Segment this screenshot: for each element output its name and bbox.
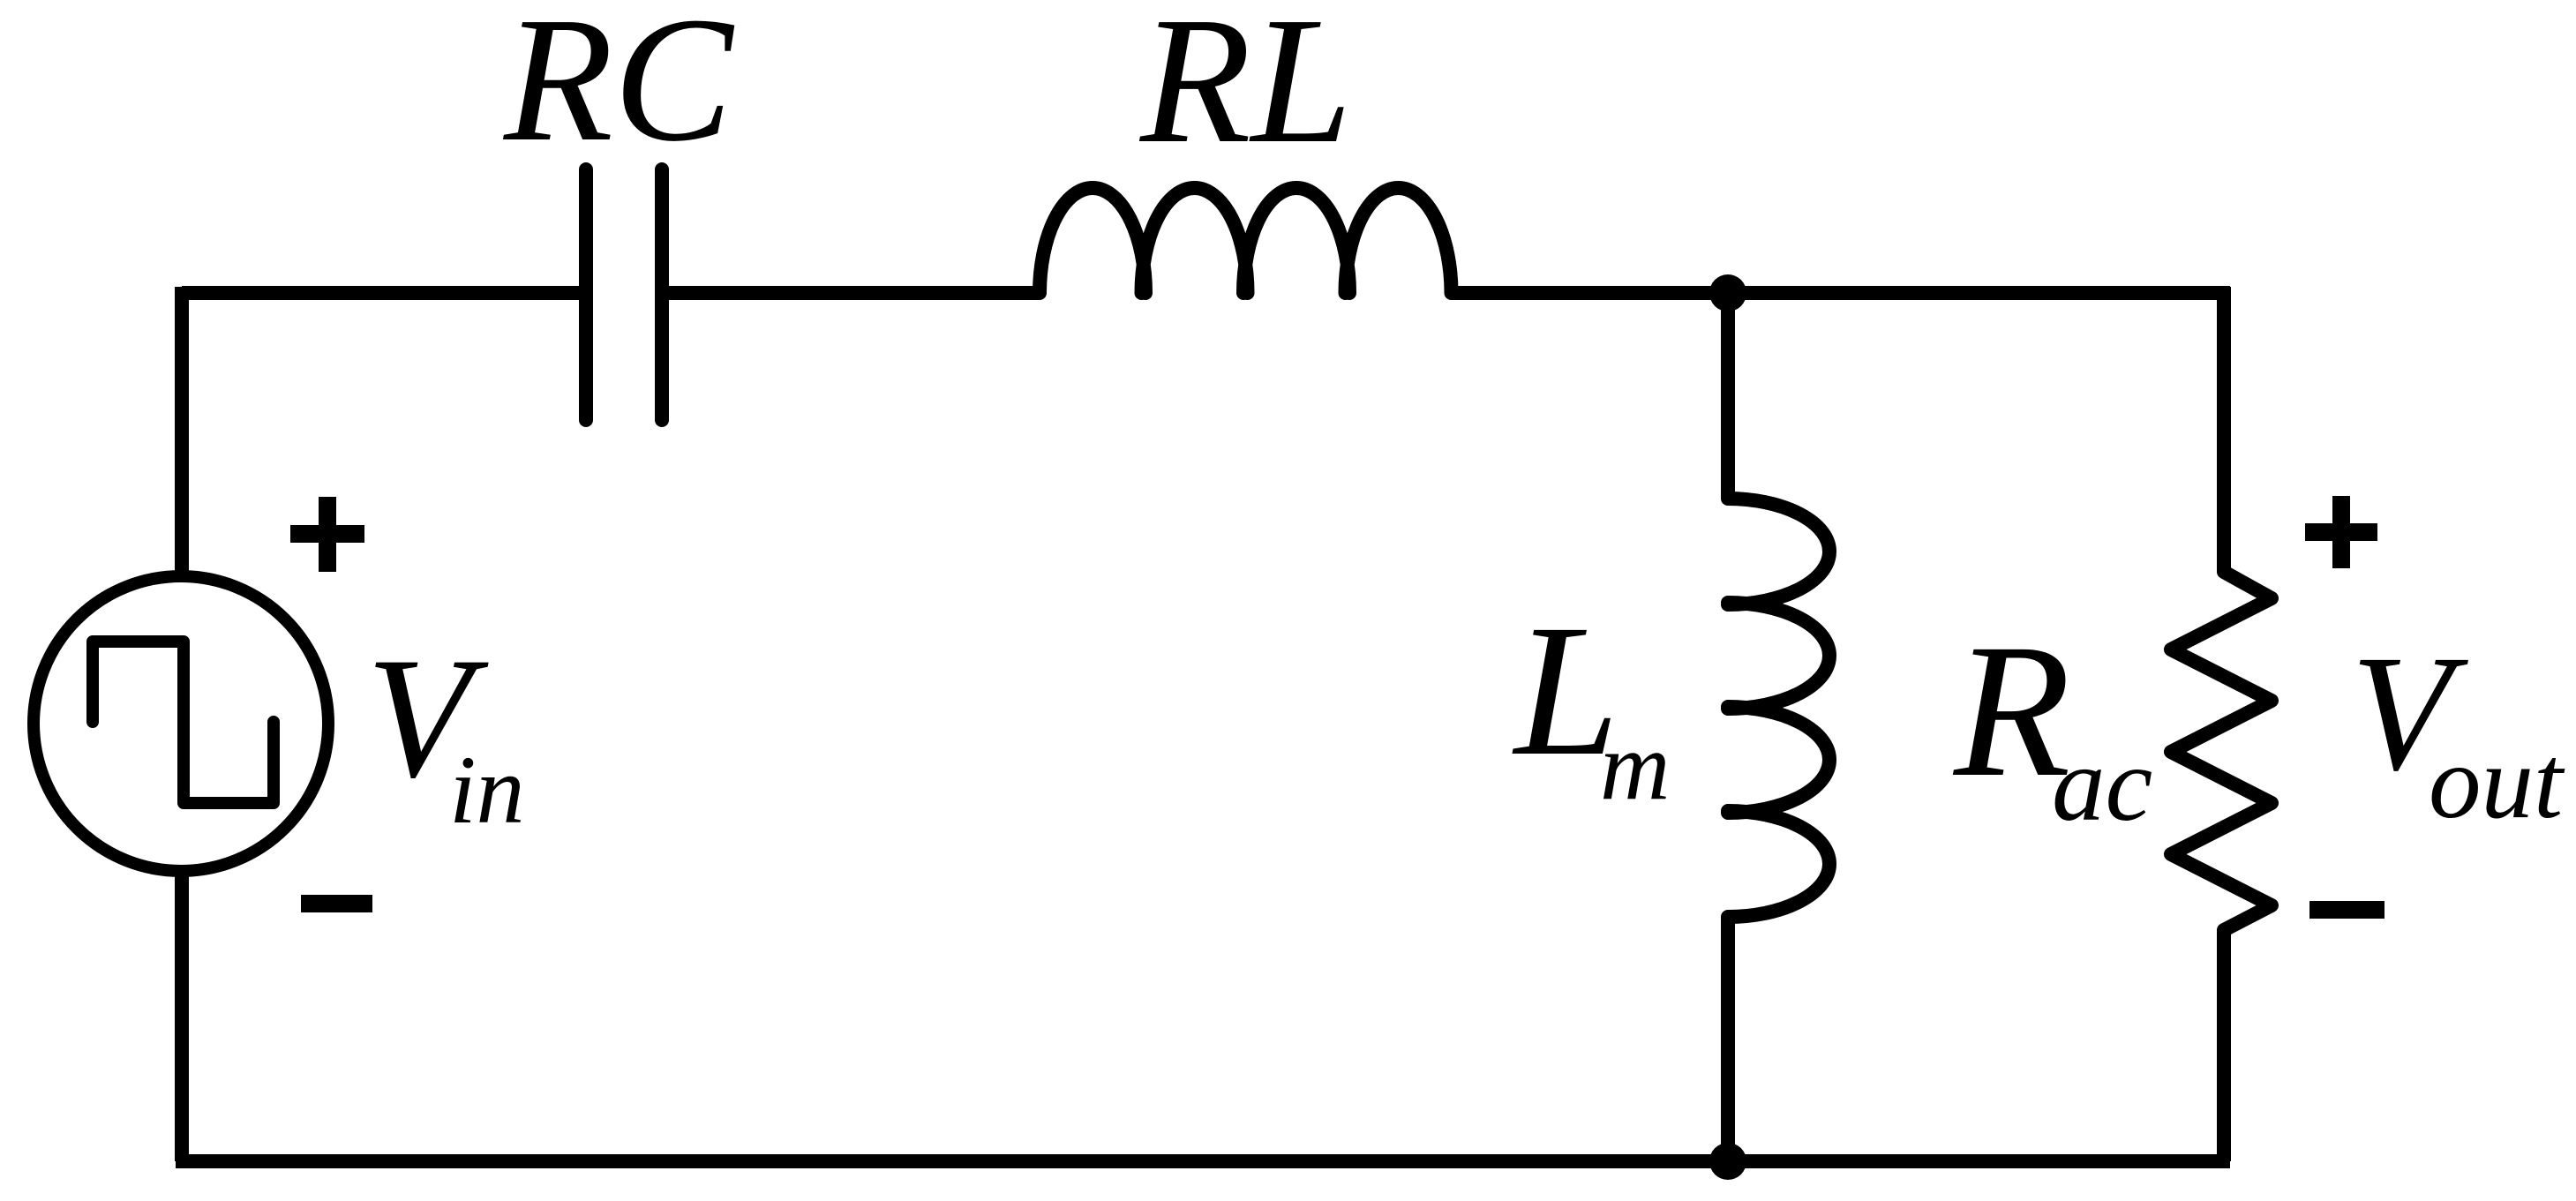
plus sign of Vout xyxy=(2305,496,2377,568)
resistor Rac zigzag xyxy=(2171,572,2272,930)
minus sign of Vin xyxy=(301,895,372,912)
svg-text:RL: RL xyxy=(1138,0,1352,181)
plus sign of Vin xyxy=(290,497,364,572)
svg-text:out: out xyxy=(2429,724,2565,840)
wire between capacitor and inductor RL xyxy=(668,286,1040,300)
svg-text:ac: ac xyxy=(2052,725,2152,844)
capacitor RC right plate xyxy=(655,169,669,420)
wire right vertical upper xyxy=(2217,287,2231,572)
capacitor RC left plate xyxy=(579,169,593,420)
node A top junction dot xyxy=(1709,274,1746,312)
wire bottom horizontal xyxy=(176,1154,2230,1168)
wire from Lm to node B xyxy=(1721,917,1735,1161)
voltage source Vin circle xyxy=(34,576,328,871)
wire left vertical upper xyxy=(175,287,189,576)
node B bottom junction dot xyxy=(1709,1143,1746,1180)
wire top-left horizontal segment xyxy=(182,286,580,300)
inductor RL xyxy=(1040,188,1452,293)
svg-text:m: m xyxy=(1600,712,1670,820)
wire from node A down to Lm xyxy=(1721,293,1735,499)
minus sign of Vout xyxy=(2309,901,2384,919)
voltage source square-wave symbol xyxy=(93,642,274,803)
wire from inductor RL to top-right corner xyxy=(1451,286,2230,300)
wire left vertical lower xyxy=(175,871,189,1161)
wire right vertical lower xyxy=(2217,930,2231,1161)
svg-text:in: in xyxy=(449,736,525,844)
inductor Lm xyxy=(1728,499,1829,917)
svg-text:RC: RC xyxy=(502,0,735,178)
